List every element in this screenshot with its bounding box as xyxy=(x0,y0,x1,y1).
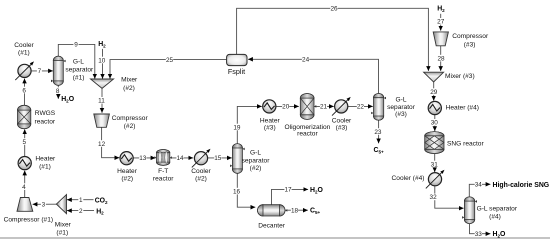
svg-text:30: 30 xyxy=(431,120,439,127)
svg-text:4: 4 xyxy=(22,184,26,191)
svg-text:Mixer (#3): Mixer (#3) xyxy=(445,73,475,80)
svg-text:Mixer: Mixer xyxy=(55,222,72,229)
svg-text:Compressor: Compressor xyxy=(452,33,489,40)
wire stream 31 (SNG reactor to cooler 4) xyxy=(431,154,439,172)
svg-text:13: 13 xyxy=(139,155,147,162)
wire stream 30 (heater 4 to SNG reactor) xyxy=(431,115,439,131)
wire stream 27 (H2 feed to compressor 3) xyxy=(437,14,445,31)
svg-text:G-L separator: G-L separator xyxy=(477,205,518,212)
wire stream 4 (compressor 1 to heater 1) xyxy=(22,171,27,198)
svg-text:H2O: H2O xyxy=(61,96,75,103)
wire stream 26 (Fsplit to mixer 3, top recycle) xyxy=(237,5,429,71)
svg-text:(#1): (#1) xyxy=(39,163,51,170)
RWGS reactor xyxy=(18,105,31,128)
svg-text:separator: separator xyxy=(387,104,416,111)
svg-text:24: 24 xyxy=(302,57,310,64)
svg-text:(#3): (#3) xyxy=(395,111,407,118)
svg-text:Cooler: Cooler xyxy=(191,168,211,175)
svg-text:32: 32 xyxy=(430,194,438,201)
wire stream 15 (cooler 2 to G-L separator 2) xyxy=(208,154,232,162)
cooler #1 xyxy=(15,61,34,80)
svg-text:9: 9 xyxy=(74,42,78,49)
wire stream 8 (separator 1 bottoms, water) xyxy=(55,85,60,98)
decanter xyxy=(258,205,288,216)
wire stream 12 (compressor 2 to heater 2) xyxy=(98,127,119,157)
svg-text:Decanter: Decanter xyxy=(258,222,286,229)
wire stream 28 (compressor 3 to mixer 3) xyxy=(437,46,445,71)
svg-text:(#3): (#3) xyxy=(336,124,348,131)
svg-text:16: 16 xyxy=(233,188,241,195)
wire stream 5 (heater 1 to RWGS reactor) xyxy=(22,129,27,156)
svg-text:31: 31 xyxy=(431,161,439,168)
compressor #2 xyxy=(94,114,110,127)
svg-text:High-calorie SNG: High-calorie SNG xyxy=(493,182,550,189)
svg-text:6: 6 xyxy=(22,87,26,94)
wire stream 2 (H2 feed to mixer 1) xyxy=(67,207,94,215)
svg-text:Mixer: Mixer xyxy=(121,77,138,84)
wire stream 19 (separator 2 overhead to heater 3) xyxy=(233,106,261,143)
svg-text:14: 14 xyxy=(176,155,184,162)
svg-text:(#1): (#1) xyxy=(18,49,30,56)
svg-text:15: 15 xyxy=(214,155,222,162)
svg-text:Cooler: Cooler xyxy=(14,42,34,49)
svg-text:7: 7 xyxy=(38,68,42,75)
svg-text:33: 33 xyxy=(475,231,483,238)
wire stream 1 (CO2 feed to mixer 1) xyxy=(67,196,94,204)
compressor #3 xyxy=(433,32,448,46)
svg-text:2: 2 xyxy=(79,208,83,215)
svg-text:(#1): (#1) xyxy=(73,75,85,82)
svg-text:(#2): (#2) xyxy=(121,175,133,182)
wire stream 33 (separator 4 bottoms, water) xyxy=(470,224,491,238)
F-T reactor xyxy=(154,150,172,166)
svg-text:reactor: reactor xyxy=(297,130,318,137)
wire stream 13 (heater 2 to F-T reactor) xyxy=(133,154,155,162)
SNG reactor xyxy=(425,132,444,154)
svg-text:H2O: H2O xyxy=(310,187,324,194)
svg-text:(#2): (#2) xyxy=(124,123,136,130)
svg-text:23: 23 xyxy=(374,129,382,136)
wire stream 32 (cooler 4 to G-L separator 4) xyxy=(430,186,464,208)
svg-text:(#2): (#2) xyxy=(123,85,135,92)
G-L separator #3 xyxy=(371,93,386,120)
svg-text:8: 8 xyxy=(56,88,60,95)
Fsplit xyxy=(227,54,247,65)
wire stream 7 (cooler 1 to G-L separator 1) xyxy=(31,68,53,76)
wire stream 22 (cooler 3 to G-L separator 3) xyxy=(348,103,373,111)
wire stream 20 (heater 3 to oligomerization reactor) xyxy=(276,103,299,111)
wire stream 18 (decanter C5+ product) xyxy=(285,207,308,215)
heater #3 xyxy=(263,100,276,113)
svg-text:Heater: Heater xyxy=(35,156,56,163)
svg-text:3: 3 xyxy=(42,202,46,209)
wire stream 25 (Fsplit recycle to mixer 2) xyxy=(110,56,226,78)
svg-text:5: 5 xyxy=(23,139,27,146)
svg-text:(#3): (#3) xyxy=(264,124,276,131)
svg-text:26: 26 xyxy=(330,6,338,13)
svg-text:25: 25 xyxy=(166,57,174,64)
svg-text:G-L: G-L xyxy=(73,58,84,65)
wire stream 16 (separator 2 bottoms to decanter) xyxy=(233,174,255,208)
svg-text:(#2): (#2) xyxy=(250,165,262,172)
svg-text:RWGS: RWGS xyxy=(35,110,56,117)
G-L separator #1 xyxy=(51,56,66,85)
heater #2 xyxy=(120,152,133,165)
wire stream 29 (mixer 3 to heater 4) xyxy=(430,82,438,101)
svg-text:separator: separator xyxy=(242,157,271,164)
mixer #3 xyxy=(424,72,444,82)
svg-text:21: 21 xyxy=(320,104,328,111)
svg-text:29: 29 xyxy=(430,89,438,96)
mixer #2 xyxy=(91,79,114,88)
svg-text:reactor: reactor xyxy=(35,118,56,125)
svg-text:G-L: G-L xyxy=(250,150,261,157)
svg-text:22: 22 xyxy=(357,104,365,111)
compressor #1 xyxy=(17,198,33,212)
svg-text:28: 28 xyxy=(437,55,445,62)
svg-text:(#1): (#1) xyxy=(56,230,68,237)
cooler #4 xyxy=(426,170,445,189)
heater #4 xyxy=(428,101,441,114)
svg-text:(#2): (#2) xyxy=(195,175,207,182)
svg-text:34: 34 xyxy=(475,182,483,189)
svg-text:Cooler: Cooler xyxy=(332,117,352,124)
bottom rule xyxy=(0,237,550,239)
svg-text:F-T: F-T xyxy=(158,168,168,175)
wire stream 21 (oligomerization reactor to cooler 3) xyxy=(314,103,334,111)
svg-text:Cooler (#4): Cooler (#4) xyxy=(392,175,425,182)
wire stream 17 (decanter water draw) xyxy=(272,186,309,205)
G-L separator #4 xyxy=(462,197,477,224)
wire stream 24 (separator 3 overhead to Fsplit) xyxy=(248,56,378,93)
heater #1 xyxy=(18,157,31,170)
svg-text:19: 19 xyxy=(233,124,241,131)
svg-text:12: 12 xyxy=(98,141,106,148)
svg-text:H2O: H2O xyxy=(493,231,507,238)
svg-text:Compressor: Compressor xyxy=(112,115,149,122)
svg-text:Heater: Heater xyxy=(260,117,281,124)
oligomerization reactor xyxy=(300,93,316,119)
svg-text:reactor: reactor xyxy=(153,175,174,182)
G-L separator #2 xyxy=(230,144,245,174)
svg-text:11: 11 xyxy=(98,98,105,105)
cooler #3 xyxy=(332,97,351,116)
svg-text:18: 18 xyxy=(291,208,299,215)
svg-text:Heater: Heater xyxy=(117,168,138,175)
svg-text:(#3): (#3) xyxy=(464,41,476,48)
mixer #1 xyxy=(56,195,66,214)
svg-text:Compressor (#1): Compressor (#1) xyxy=(4,216,53,223)
wire stream 14 (F-T reactor to cooler 2) xyxy=(170,154,193,162)
wire stream 11 (mixer 2 to compressor 2) xyxy=(98,88,105,112)
svg-text:Heater (#4): Heater (#4) xyxy=(446,104,479,111)
cooler #2 xyxy=(192,149,211,168)
svg-text:10: 10 xyxy=(98,57,106,64)
svg-text:20: 20 xyxy=(282,104,290,111)
svg-text:G-L: G-L xyxy=(396,96,407,103)
wire stream 3 (mixer 1 to compressor 1) xyxy=(33,201,57,209)
wire stream 10 (H2 feed to mixer 2) xyxy=(98,49,106,79)
svg-text:SNG reactor: SNG reactor xyxy=(447,141,484,148)
wire stream 9 (separator 1 overhead to mixer 2) xyxy=(58,41,95,79)
wire stream 23 (separator 3 bottoms, C5+) xyxy=(374,120,382,143)
svg-text:(#4): (#4) xyxy=(489,214,501,221)
svg-text:1: 1 xyxy=(79,197,83,204)
svg-text:separator: separator xyxy=(65,67,94,74)
svg-text:27: 27 xyxy=(437,19,445,26)
svg-text:Fsplit: Fsplit xyxy=(228,67,245,76)
wire stream 34 (separator 4 overhead, SNG product) xyxy=(469,181,490,197)
wire stream 6 (RWGS reactor to cooler 1) xyxy=(22,79,27,105)
svg-text:17: 17 xyxy=(284,187,292,194)
